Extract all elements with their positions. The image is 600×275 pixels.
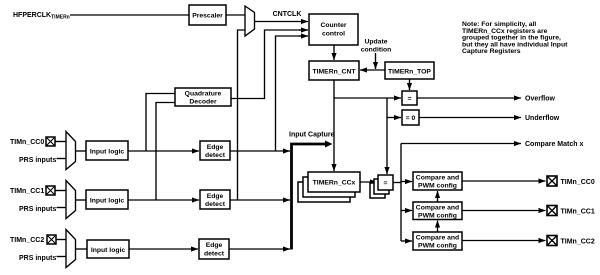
svg-text:=: = bbox=[408, 96, 412, 103]
input capture arrowhead bbox=[325, 141, 333, 148]
note text bbox=[462, 21, 568, 55]
wire input logic CC0 to edge detect bbox=[128, 150, 199, 152]
wire input logic CC2 to edge detect bbox=[129, 248, 198, 250]
wire CNTCLK mux output to Counter control bbox=[255, 21, 309, 23]
wire quadrature input from CC0 bbox=[146, 94, 175, 152]
input mux CC1 bbox=[66, 181, 76, 219]
svg-text:PWM config: PWM config bbox=[418, 213, 457, 220]
svg-text:Update: Update bbox=[364, 39, 387, 46]
comparator = (overflow) bbox=[402, 91, 417, 105]
svg-text:Compare and: Compare and bbox=[416, 205, 459, 212]
pin TIMn_CC0 input pad bbox=[46, 137, 55, 146]
wire to compare config 2 bbox=[401, 240, 412, 242]
wire compare comparator to compare bus bbox=[393, 182, 401, 184]
wire edge detect CC2 to capture bus bbox=[229, 248, 290, 250]
svg-text:PRS inputs: PRS inputs bbox=[19, 206, 56, 213]
wire update condition arrow bbox=[375, 53, 377, 69]
svg-text:control: control bbox=[322, 31, 345, 38]
svg-text:Counter: Counter bbox=[320, 22, 346, 29]
capture bus (thick) bbox=[292, 144, 327, 250]
svg-text:Overflow: Overflow bbox=[525, 96, 556, 103]
svg-text:Input Capture: Input Capture bbox=[289, 132, 335, 139]
wire HFPERCLK to Prescaler bbox=[70, 14, 189, 16]
wire config1 to TIMn_CC1 pin bbox=[462, 210, 546, 212]
wire Counter control to TIMERn_CNT bbox=[333, 45, 335, 60]
svg-text:Input logic: Input logic bbox=[90, 149, 125, 156]
wire mux second input from CC1 edge detect bbox=[238, 30, 246, 200]
wire Underflow output bbox=[419, 117, 521, 119]
wire quadrature input from CC1 bbox=[156, 103, 175, 201]
svg-text:TIMERn_CCx: TIMERn_CCx bbox=[313, 180, 356, 187]
wire Compare Match x output bbox=[401, 143, 521, 145]
svg-text:Edge: Edge bbox=[207, 144, 224, 151]
wire quadrature decoder to Counter control bbox=[231, 30, 300, 99]
wire TIMERn_CCx to compare comparator bbox=[360, 181, 377, 183]
pin TIMn_CC1 input pad bbox=[46, 186, 55, 195]
register TIMERn_TOP bbox=[385, 62, 434, 79]
wire branch to underflow comparator bbox=[387, 117, 401, 119]
wire to compare config 0 bbox=[401, 181, 412, 183]
svg-text:detect: detect bbox=[204, 251, 225, 258]
block Compare and PWM config 2 bbox=[413, 232, 462, 250]
wire CC0 pin to mux bbox=[55, 141, 66, 143]
block Compare and PWM config 1 bbox=[413, 202, 462, 220]
wire CC2 pin to mux bbox=[56, 239, 66, 241]
svg-text:Input logic: Input logic bbox=[91, 247, 126, 254]
svg-text:detect: detect bbox=[205, 152, 226, 159]
wire to compare config 1 bbox=[401, 210, 412, 212]
input mux CC2 bbox=[66, 230, 76, 268]
svg-text:TIMERn_CNT: TIMERn_CNT bbox=[312, 69, 356, 76]
block Input logic CC1 bbox=[86, 190, 128, 209]
block Input logic CC2 bbox=[87, 240, 129, 258]
compare bus vertical bbox=[400, 144, 402, 242]
wire Overflow output bbox=[417, 97, 521, 99]
svg-text:PRS inputs: PRS inputs bbox=[19, 157, 56, 164]
wire PRS to CC2 mux bbox=[57, 256, 67, 258]
block Prescaler bbox=[189, 5, 226, 25]
svg-text:TIMn_CC1: TIMn_CC1 bbox=[10, 188, 44, 195]
wire TIMERn_CNT down to TIMERn_CCx capture bbox=[333, 80, 335, 171]
register stack TIMERn_CCx bbox=[298, 172, 360, 202]
svg-text:PWM config: PWM config bbox=[418, 183, 457, 190]
svg-text:TIMn_CC2: TIMn_CC2 bbox=[561, 239, 595, 246]
svg-text:= 0: = 0 bbox=[406, 115, 416, 122]
svg-text:Quadrature: Quadrature bbox=[185, 91, 222, 98]
svg-text:Compare and: Compare and bbox=[416, 175, 459, 182]
svg-text:PRS inputs: PRS inputs bbox=[19, 255, 56, 262]
svg-text:CNTCLK: CNTCLK bbox=[273, 11, 302, 18]
svg-text:TIMERn_TOP: TIMERn_TOP bbox=[388, 69, 431, 76]
wire config2 to TIMn_CC2 pin bbox=[462, 240, 546, 242]
svg-text:TIMn_CC2: TIMn_CC2 bbox=[10, 237, 44, 244]
svg-text:Prescaler: Prescaler bbox=[192, 13, 223, 20]
pin TIMn_CC2 output pad bbox=[547, 236, 557, 246]
wire PRS to CC0 mux bbox=[57, 158, 67, 160]
wire CC1 pin to mux bbox=[55, 190, 66, 192]
block Quadrature Decoder bbox=[175, 88, 231, 106]
svg-text:Underflow: Underflow bbox=[525, 115, 560, 122]
block Compare and PWM config 0 bbox=[413, 172, 462, 190]
comparator stack = (compare) bbox=[370, 175, 393, 198]
wire CC0 mux to input logic bbox=[76, 150, 87, 152]
block Edge detect CC0 bbox=[200, 141, 230, 160]
wire chain config2 to config1 bbox=[437, 221, 439, 233]
wire edge detect CC0 to capture bus bbox=[230, 150, 290, 152]
wire TIMERn_TOP to TIMERn_CNT bbox=[360, 69, 385, 71]
wire CNT branch down to compare comparator bbox=[386, 98, 388, 174]
pin TIMn_CC2 input pad bbox=[47, 235, 56, 244]
input mux CC0 bbox=[66, 132, 76, 170]
block Edge detect CC1 bbox=[200, 190, 230, 209]
svg-text:Capture Registers: Capture Registers bbox=[462, 48, 521, 55]
svg-text:detect: detect bbox=[205, 201, 226, 208]
svg-text:=: = bbox=[384, 180, 388, 187]
wire CC0 edge detect to Counter control bbox=[276, 36, 301, 151]
svg-text:TIMn_CC1: TIMn_CC1 bbox=[561, 209, 595, 216]
svg-text:Compare Match x: Compare Match x bbox=[525, 141, 583, 148]
wire CC2 mux to input logic bbox=[76, 248, 88, 250]
wire chain config1 to config0 bbox=[437, 191, 439, 202]
wire input logic CC1 to edge detect bbox=[128, 199, 199, 201]
svg-text:PWM config: PWM config bbox=[418, 243, 457, 250]
block Input logic CC0 bbox=[86, 141, 128, 160]
wire config0 to TIMn_CC0 pin bbox=[462, 180, 546, 182]
register TIMERn_CNT bbox=[309, 61, 359, 80]
svg-text:Decoder: Decoder bbox=[189, 99, 217, 106]
block Edge detect CC2 bbox=[199, 239, 229, 259]
svg-text:Compare and: Compare and bbox=[416, 235, 459, 242]
wire TIMERn_TOP to overflow comparator bbox=[409, 79, 411, 90]
clock select mux bbox=[245, 6, 255, 36]
wire edge detect CC1 to capture bus bbox=[230, 199, 290, 201]
svg-text:TIMn_CC0: TIMn_CC0 bbox=[561, 179, 595, 186]
pin TIMn_CC0 output pad bbox=[547, 176, 557, 186]
wire Prescaler to clock mux bbox=[226, 14, 245, 16]
svg-text:Edge: Edge bbox=[207, 193, 224, 200]
block Counter control bbox=[309, 14, 358, 45]
svg-text:condition: condition bbox=[361, 47, 392, 54]
svg-text:TIMn_CC0: TIMn_CC0 bbox=[10, 139, 44, 146]
wire CNT to overflow comparator bbox=[334, 97, 401, 99]
comparator = 0 (underflow) bbox=[402, 110, 419, 125]
wire CC1 mux to input logic bbox=[76, 199, 87, 201]
wire PRS to CC1 mux bbox=[57, 207, 67, 209]
pin TIMn_CC1 output pad bbox=[547, 206, 557, 216]
svg-text:Input logic: Input logic bbox=[90, 198, 125, 205]
svg-text:Edge: Edge bbox=[206, 242, 223, 249]
